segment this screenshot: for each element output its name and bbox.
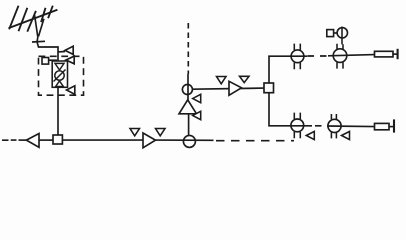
top branch dashed cable — [308, 55, 329, 57]
splitter square S1 — [53, 135, 62, 144]
antenna mast wire — [37, 36, 58, 61]
subscriber outlet T2 — [333, 44, 347, 69]
test point arrow — [193, 94, 201, 102]
bottom trunk dashed cable (left) — [2, 139, 17, 141]
distribution amplifier pointing right — [229, 81, 242, 95]
lower branch dashed cable — [315, 125, 328, 127]
test point arrow — [193, 111, 201, 119]
antenna boom — [9, 10, 58, 28]
test point mark (down triangle) — [217, 77, 227, 84]
antenna dipole feed V — [35, 15, 44, 36]
TV set symbol — [327, 30, 338, 37]
test point arrow above amplifier box — [58, 46, 73, 54]
wire from J2 to splitter S2 — [192, 88, 264, 89]
subscriber outlet T4 — [328, 114, 341, 138]
test point arrow at U1 output bottom — [67, 86, 75, 95]
test point arrow after T3 — [306, 131, 314, 139]
wire to amplifier — [19, 139, 28, 141]
wire — [187, 74, 189, 101]
test point mark (down triangle) — [156, 129, 166, 136]
wire — [62, 139, 143, 141]
line amplifier pointing left — [26, 134, 39, 148]
dashed enclosure box (head-end station) — [39, 56, 84, 95]
wire — [39, 139, 53, 141]
splitter square S2 — [264, 83, 274, 93]
riser amplifier pointing up — [179, 100, 197, 114]
attenuator symbol (down triangle) in U1 — [55, 63, 64, 70]
mast tick — [32, 40, 45, 43]
power supply square in box — [42, 58, 57, 65]
wire — [188, 114, 190, 136]
test point mark (down triangle) — [130, 129, 140, 136]
wire up to top branch — [269, 56, 307, 83]
wire down to lower branch — [269, 93, 312, 126]
bottom trunk dashed cable (right) — [216, 140, 294, 142]
antenna element 5 — [48, 6, 53, 19]
terminating resistor bottom — [375, 119, 395, 132]
test point arrow at U1 output top — [66, 56, 74, 64]
junction connector circle J1 — [183, 135, 195, 147]
amplifier symbol (up triangle) in U1 — [56, 81, 64, 87]
amplifier unit rectangle U1 — [52, 61, 67, 87]
antenna element 2 — [19, 8, 28, 31]
radio set symbol — [337, 27, 347, 45]
top branch wire — [328, 55, 375, 56]
antenna element 4 — [41, 8, 45, 22]
subscriber outlet T1 — [291, 44, 304, 70]
level control symbol (slashed circle) in U1 — [54, 70, 66, 82]
wire — [156, 139, 214, 141]
junction connector circle J2 — [182, 85, 192, 95]
line amplifier pointing right — [143, 133, 156, 148]
terminating resistor top — [375, 49, 398, 59]
riser dashed cable going up — [187, 23, 189, 74]
antenna element 3 — [27, 11, 36, 32]
feed wire through U1 down to splitter — [57, 88, 59, 136]
lower branch wire — [328, 125, 375, 128]
subscriber outlet T3 — [291, 113, 304, 139]
antenna element 1 — [9, 6, 18, 30]
test point arrow after T4 — [342, 131, 350, 139]
test point mark (down triangle) — [240, 76, 250, 82]
